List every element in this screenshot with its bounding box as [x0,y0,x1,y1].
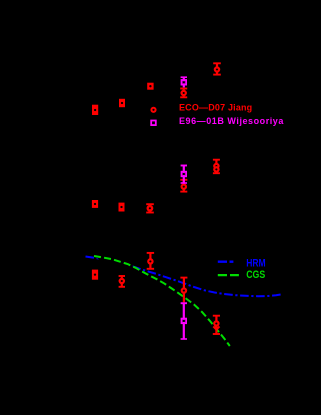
curve HRM (blue dash-dot) [86,257,284,297]
red point R10 [147,253,154,269]
red point R3 [147,83,153,90]
red point R12 (lower-limit arrow) [213,316,220,334]
svg-text:ECO—D07 Jiang: ECO—D07 Jiang [179,102,252,112]
svg-text:HRM: HRM [246,258,266,270]
svg-text:CGS: CGS [246,269,265,281]
legend line HRM [218,261,234,263]
red point R5 [180,89,187,98]
curve CGS (green dashed) [94,256,230,346]
legend marker red circle [151,108,155,112]
red point R6 [119,203,125,212]
red point R8 [92,270,98,280]
red point R15 (double circle) [213,160,220,174]
legend marker magenta square [151,121,156,126]
legend line CGS [218,274,239,276]
magenta point M3 [181,303,187,339]
red point R14 [92,200,98,208]
red point R1 [92,105,98,115]
red point R11 [180,278,187,303]
red point R13 [180,180,187,192]
red point R2 [119,99,125,107]
red point R4 [213,63,221,74]
red point R7 [146,204,154,212]
magenta point M1 [181,77,187,87]
svg-text:E96—01B Wijesooriya: E96—01B Wijesooriya [179,116,284,126]
magenta point M2 [181,166,187,184]
red point R9 [119,276,125,287]
